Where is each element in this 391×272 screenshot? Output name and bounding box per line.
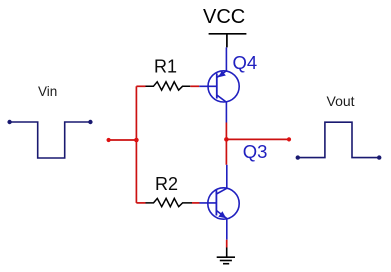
Vin waveform right terminal dot	[88, 120, 92, 124]
Vin waveform left terminal dot	[7, 120, 11, 124]
wire: left vertical bus	[135, 86, 137, 203]
transistor Q3 emitter arrow	[218, 211, 226, 218]
resistor R1	[146, 82, 191, 90]
wire: R2 left connection	[136, 202, 145, 204]
resistor R2	[146, 198, 193, 206]
node: input stub terminal dot	[107, 138, 111, 142]
svg-text:R2: R2	[155, 174, 178, 194]
Vout waveform	[298, 122, 379, 157]
wire: Q3 emitter to ground	[226, 240, 228, 248]
Vout waveform right terminal dot	[377, 155, 381, 159]
node: output junction	[224, 137, 229, 142]
transistor Q4	[199, 47, 239, 122]
wire: output bus vertical	[225, 123, 227, 165]
transistor Q3	[200, 165, 240, 240]
node: junction on left bus	[134, 138, 139, 143]
transistor Q4 emitter arrow	[219, 71, 226, 78]
wire: R1 right connection	[190, 85, 199, 87]
wire: R2 right connection	[192, 202, 200, 204]
svg-text:Q3: Q3	[243, 141, 268, 162]
Vout waveform left terminal dot	[296, 155, 300, 159]
svg-text:R1: R1	[154, 56, 177, 76]
VCC power rail	[209, 34, 247, 48]
wire: output horizontal	[226, 138, 289, 140]
wire: R1 left connection	[136, 85, 145, 87]
wire: input stub	[109, 139, 137, 141]
svg-text:Vin: Vin	[38, 84, 57, 99]
svg-text:VCC: VCC	[203, 6, 245, 28]
svg-text:Vout: Vout	[327, 93, 355, 109]
node: output terminal dot	[287, 137, 291, 141]
ground	[217, 248, 235, 264]
svg-text:Q4: Q4	[233, 52, 258, 73]
Vin waveform	[10, 122, 91, 158]
